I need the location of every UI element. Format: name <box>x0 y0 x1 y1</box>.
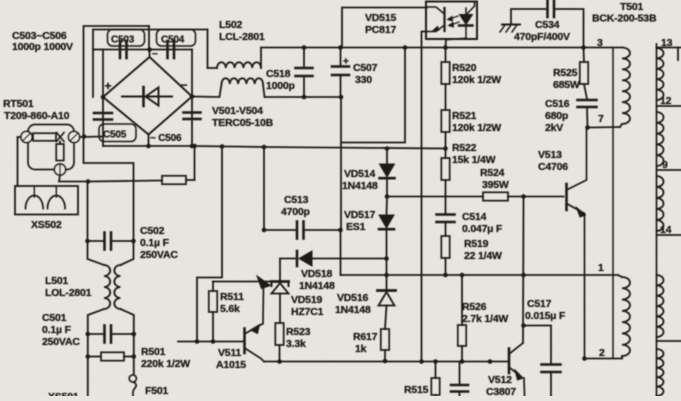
label pin3 <box>597 37 603 49</box>
resistor R519 <box>441 236 449 275</box>
svg-text:C518: C518 <box>266 68 291 80</box>
svg-text:V511: V511 <box>218 347 242 359</box>
svg-text:680p: 680p <box>545 110 568 122</box>
svg-text:R523: R523 <box>286 326 311 338</box>
svg-text:R617: R617 <box>353 331 378 343</box>
bridge rectifier V501-V504 diamond <box>103 50 192 147</box>
svg-text:R519: R519 <box>464 238 489 250</box>
wire RT501 K to XS502 <box>18 137 21 186</box>
wire B+ top link <box>93 30 208 98</box>
svg-text:C517: C517 <box>527 298 552 310</box>
capacitor C518 <box>296 45 313 97</box>
label L501 <box>45 275 92 299</box>
capacitor C516 <box>578 84 597 130</box>
svg-text:C514: C514 <box>462 211 487 223</box>
svg-text:R522: R522 <box>452 142 477 154</box>
svg-text:2kV: 2kV <box>545 122 563 134</box>
svg-text:1N4148: 1N4148 <box>335 304 371 316</box>
diode VD517 <box>379 197 394 276</box>
diode VD514 <box>380 149 395 197</box>
optocoupler LED <box>459 2 475 39</box>
svg-text:XS501: XS501 <box>48 391 79 396</box>
label C501 <box>42 312 80 348</box>
RT501 resistor element <box>33 133 56 141</box>
transformer winding 1-2 <box>618 275 630 359</box>
optocoupler phototransistor <box>427 7 445 32</box>
svg-text:R525: R525 <box>553 67 578 79</box>
wire series resistor line <box>88 146 195 182</box>
svg-text:1000p 1000V: 1000p 1000V <box>12 41 73 53</box>
node rail275 vd516 <box>384 273 389 278</box>
capacitor C502 <box>85 233 136 250</box>
svg-text:120k 1/2W: 120k 1/2W <box>452 122 501 134</box>
diode VD518 <box>280 251 387 282</box>
svg-text:330: 330 <box>355 74 372 86</box>
wire bridge bottom edge <box>103 144 197 149</box>
svg-text:C4706: C4706 <box>538 161 568 173</box>
label VD514 <box>342 168 378 192</box>
svg-text:LOL-2801: LOL-2801 <box>45 287 92 299</box>
resistor R521 <box>441 110 449 148</box>
label pin12 <box>660 95 672 107</box>
label VD519 <box>291 294 324 318</box>
svg-text:1k: 1k <box>355 343 367 355</box>
svg-text:1N4148: 1N4148 <box>342 180 378 192</box>
label R501 <box>141 346 190 370</box>
diode VD516 <box>378 275 396 329</box>
svg-text:XS502: XS502 <box>31 219 62 231</box>
inductor L502 lower <box>192 78 265 97</box>
capacitor C514 <box>437 197 455 237</box>
svg-text:3: 3 <box>597 37 603 49</box>
label R519 <box>464 238 502 262</box>
thermistor RT501 box <box>28 125 74 170</box>
svg-text:C502: C502 <box>140 225 165 237</box>
label C534 <box>514 19 570 43</box>
label C518 <box>266 68 295 92</box>
svg-text:C507: C507 <box>353 62 378 74</box>
optocoupler VD515 box <box>426 2 477 40</box>
svg-text:V513: V513 <box>538 149 562 161</box>
svg-text:1: 1 <box>598 262 604 274</box>
svg-text:C505: C505 <box>103 130 127 141</box>
wire TL corner link <box>93 49 103 51</box>
svg-text:0.015µ F: 0.015µ F <box>525 310 566 322</box>
svg-text:VD518: VD518 <box>301 268 332 280</box>
svg-text:250VAC: 250VAC <box>42 336 80 348</box>
transformer winding 13-12 <box>657 48 664 100</box>
label R522 <box>452 142 496 166</box>
wire bridge top edge <box>103 49 192 51</box>
svg-text:R515: R515 <box>404 384 429 396</box>
label R526 <box>462 301 508 325</box>
inductor L502 upper <box>208 30 262 69</box>
wire pin12 <box>657 105 681 107</box>
svg-text:4700p: 4700p <box>281 206 310 218</box>
transistor V511 <box>245 276 271 362</box>
label R524 <box>480 167 509 191</box>
resistor R520 <box>441 48 449 111</box>
wire pin7 <box>588 126 621 129</box>
svg-text:VD517: VD517 <box>344 209 375 221</box>
resistor R526 <box>458 275 466 364</box>
svg-text:220k 1/2W: 220k 1/2W <box>141 358 190 370</box>
wire bottom rail y361 <box>264 359 508 364</box>
svg-text:VD514: VD514 <box>344 168 375 180</box>
wire AC-L top line <box>84 26 150 136</box>
transformer winding 12-9 <box>657 112 664 166</box>
inductor L501 left coil <box>88 241 111 309</box>
capacitor C505 <box>94 113 136 142</box>
label pin7 <box>598 113 604 125</box>
node VD518 junction <box>384 256 389 261</box>
wire base rail y196 <box>387 196 483 198</box>
transformer primary axis <box>612 48 614 359</box>
wire V512 collector up <box>522 197 525 344</box>
label R617 <box>353 331 378 355</box>
resistor unlabeled degauss series <box>162 176 186 184</box>
resistor R522 <box>441 149 449 197</box>
label V501-V504 <box>212 105 274 129</box>
svg-text:3.3k: 3.3k <box>286 338 306 350</box>
RT501 heater element <box>56 142 64 161</box>
wire pin14 <box>657 234 681 236</box>
label pin1 <box>598 262 604 274</box>
label VD518 <box>299 268 335 292</box>
wire opto LED to rail <box>443 39 466 50</box>
wire branch x264 <box>263 147 265 230</box>
svg-text:2.7k 1/4W: 2.7k 1/4W <box>462 313 508 325</box>
label pin14 <box>660 224 672 236</box>
wire RT501 t2 junction <box>80 134 103 139</box>
wire pin9 <box>657 169 681 171</box>
label V511 <box>216 347 246 371</box>
connector XS502 <box>15 186 78 215</box>
svg-text:0.1µ F: 0.1µ F <box>140 237 170 249</box>
label C514 <box>462 211 503 235</box>
wire R511 top rail <box>213 281 272 283</box>
wire return rail y97 <box>265 95 344 100</box>
label R520 <box>452 62 501 86</box>
transformer winding 9-14 <box>657 176 664 231</box>
wire V511 base <box>178 339 244 344</box>
svg-text:C3807: C3807 <box>486 386 516 396</box>
label pin9 <box>662 159 668 171</box>
svg-text:C534: C534 <box>535 19 560 31</box>
resistor R523 <box>275 323 283 364</box>
svg-text:1000p: 1000p <box>266 80 295 92</box>
wire gnd rail y147 <box>195 144 446 151</box>
capacitor C503 <box>108 30 145 59</box>
svg-text:LCL-2801: LCL-2801 <box>219 31 265 43</box>
label V512 <box>486 374 516 398</box>
svg-text:VD519: VD519 <box>291 294 322 306</box>
svg-text:R501: R501 <box>141 346 166 358</box>
wire right-mains riser <box>84 136 134 241</box>
label R523 <box>286 326 311 350</box>
label C516 <box>545 98 570 134</box>
svg-text:C503: C503 <box>111 35 135 46</box>
svg-text:+: + <box>343 57 349 68</box>
capacitor C501 <box>86 326 137 343</box>
svg-text:F501: F501 <box>145 385 168 396</box>
label R525 <box>553 67 580 91</box>
wire opto collector to rail <box>342 8 427 48</box>
node bridge AC top <box>147 47 152 52</box>
fuse F501 <box>129 357 136 397</box>
svg-text:C501: C501 <box>42 312 67 324</box>
svg-text:C516: C516 <box>545 98 570 110</box>
label R511 <box>220 291 244 315</box>
svg-text:470pF/400V: 470pF/400V <box>514 31 570 43</box>
node base rail left <box>385 194 390 199</box>
svg-text:250VAC: 250VAC <box>140 249 178 261</box>
wire C507 return corner <box>340 97 342 230</box>
svg-text:120k 1/2W: 120k 1/2W <box>452 74 501 86</box>
capacitor C515 <box>451 362 468 397</box>
wire pin13 <box>657 48 681 61</box>
wire bridge right edge <box>190 50 195 147</box>
svg-text:9: 9 <box>662 159 668 171</box>
inductor L501 right coil <box>114 241 133 309</box>
svg-text:12: 12 <box>660 95 672 107</box>
bridge diode symbol <box>122 87 172 106</box>
label VD516 <box>335 292 371 316</box>
wire feedback rail y275 <box>341 230 619 277</box>
svg-text:L501: L501 <box>45 275 68 287</box>
RT501 terminal K <box>21 131 32 142</box>
label RT501 <box>3 98 70 122</box>
resistor R515 <box>431 362 439 397</box>
label C507 <box>353 62 378 86</box>
svg-text:7: 7 <box>598 113 604 125</box>
svg-text:R511: R511 <box>220 291 244 303</box>
svg-text:PC817: PC817 <box>365 24 396 36</box>
label C513 <box>281 194 310 218</box>
transistor V512 <box>509 343 525 396</box>
transformer secondary axis <box>656 44 658 396</box>
capacitor C534 <box>548 0 586 50</box>
wire box corner x405 <box>341 45 407 142</box>
svg-text:5.6k: 5.6k <box>220 303 240 315</box>
svg-text:R520: R520 <box>452 62 477 74</box>
wire branch x222 <box>197 147 222 342</box>
svg-text:TERC05-10B: TERC05-10B <box>212 117 274 129</box>
label tilde top <box>152 49 158 60</box>
svg-text:685W: 685W <box>553 79 580 91</box>
svg-text:R526: R526 <box>462 301 487 313</box>
svg-text:~: ~ <box>152 49 158 60</box>
resistor R501 <box>86 334 137 396</box>
wire pin2 <box>582 356 622 361</box>
node R522 top <box>443 146 448 151</box>
svg-text:HZ7C1: HZ7C1 <box>291 306 324 318</box>
svg-text:BCK-200-53B: BCK-200-53B <box>592 13 657 25</box>
capacitor C513 <box>262 222 343 239</box>
capacitor C507 <box>332 45 349 97</box>
optocoupler light arrows <box>448 16 460 27</box>
svg-text:T209-860-A10: T209-860-A10 <box>4 110 70 122</box>
resistor R524 <box>483 192 564 200</box>
wire secondary mid tap <box>657 340 681 342</box>
svg-text:C513: C513 <box>284 194 309 206</box>
wire opto emitter down <box>422 32 428 362</box>
svg-text:395W: 395W <box>482 179 509 191</box>
label XS501 clipped <box>48 391 79 401</box>
label L502 <box>219 19 265 43</box>
transformer winding lower A <box>657 275 664 337</box>
svg-text:13: 13 <box>661 37 673 49</box>
zener VD519 <box>272 282 289 324</box>
wire bridge left edge <box>101 50 106 147</box>
label XS502 <box>31 219 62 231</box>
label minus <box>181 78 188 92</box>
svg-text:T501: T501 <box>620 1 643 13</box>
wire left-mains riser <box>87 182 89 242</box>
label plus <box>105 79 112 93</box>
capacitor C517 <box>521 323 560 396</box>
label pin2 <box>599 347 605 359</box>
svg-text:2: 2 <box>599 347 605 359</box>
svg-text:V501-V504: V501-V504 <box>212 105 263 117</box>
resistor R525 <box>580 48 588 85</box>
label C503~C506 <box>12 30 73 53</box>
svg-text:VD516: VD516 <box>337 292 368 304</box>
ground C534 <box>500 9 547 32</box>
label C517 <box>525 298 566 322</box>
wire B+ rail <box>261 47 622 49</box>
RT501 terminal 2 <box>68 131 79 142</box>
svg-text:V512: V512 <box>488 374 512 386</box>
RT501 cross mark <box>57 133 65 142</box>
transformer winding 3-7 <box>620 48 630 128</box>
label VD515 <box>365 12 396 36</box>
resistor R617 <box>381 329 389 363</box>
capacitor C504 <box>157 30 196 59</box>
label pin13 <box>661 37 673 49</box>
label T501 <box>592 1 657 25</box>
label C502 <box>140 225 178 261</box>
svg-text:~ C506: ~ C506 <box>150 133 182 144</box>
svg-text:0.047µ F: 0.047µ F <box>462 223 503 235</box>
svg-text:VD515: VD515 <box>365 12 396 24</box>
svg-text:22 1/4W: 22 1/4W <box>464 250 502 262</box>
svg-text:A1015: A1015 <box>216 359 246 371</box>
resistor R511 <box>209 282 217 344</box>
svg-text:R524: R524 <box>480 167 505 179</box>
svg-text:0.1µ F: 0.1µ F <box>42 324 72 336</box>
label V513 <box>538 149 568 173</box>
RT501 terminal 1 <box>54 164 65 175</box>
svg-text:14: 14 <box>660 224 672 236</box>
capacitor C506 <box>150 113 201 145</box>
wire L501 to C501 <box>88 309 134 334</box>
label F501 <box>145 385 168 397</box>
svg-text:R521: R521 <box>452 110 477 122</box>
svg-text:15k 1/4W: 15k 1/4W <box>452 154 496 166</box>
label R521 <box>452 110 501 134</box>
transistor V513 <box>567 128 587 359</box>
label VD517 <box>344 209 375 233</box>
transformer winding lower B <box>657 349 664 396</box>
svg-text:1N4148: 1N4148 <box>299 280 335 292</box>
wire RT501 t1 down <box>59 175 90 184</box>
label R515 <box>404 384 429 396</box>
svg-text:ES1: ES1 <box>346 221 366 233</box>
svg-text:L502: L502 <box>219 19 242 31</box>
svg-text:C504: C504 <box>161 35 185 46</box>
svg-text:RT501: RT501 <box>3 98 34 110</box>
